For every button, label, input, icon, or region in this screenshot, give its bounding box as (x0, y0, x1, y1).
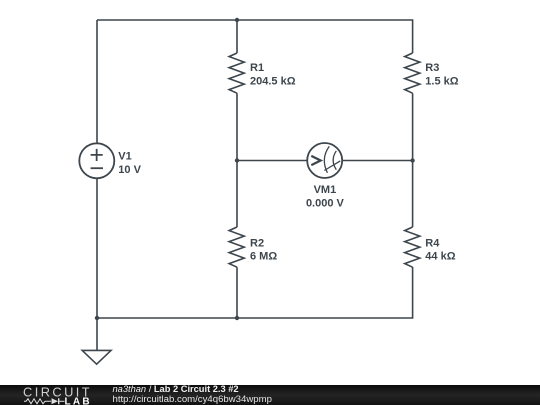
svg-text:R1: R1 (250, 62, 264, 74)
svg-text:V1: V1 (118, 151, 131, 163)
voltmeter VM1 needle (324, 161, 340, 171)
footer title line (113, 384, 239, 394)
voltmeter VM1 chevron (311, 156, 320, 165)
footer bar (0, 385, 540, 405)
resistor R1 zigzag (229, 53, 244, 93)
resistor R2 zigzag (229, 227, 244, 267)
svg-text:LAB: LAB (65, 396, 92, 405)
voltage source V1 circle (79, 143, 114, 178)
wire: node B to R2 top (236, 161, 238, 228)
svg-text:6 MΩ: 6 MΩ (250, 251, 277, 263)
svg-text:44 kΩ: 44 kΩ (425, 251, 455, 263)
svg-text:204.5 kΩ: 204.5 kΩ (250, 75, 296, 87)
ground symbol (82, 350, 111, 364)
logo diode triangle (52, 398, 59, 404)
wire: left branch below V1 to bottom net (96, 178, 98, 318)
wire: node B to voltmeter left terminal (237, 160, 307, 162)
svg-text:10 V: 10 V (118, 164, 141, 176)
wire: R3 bottom through node C to R4 top (412, 93, 414, 227)
svg-text:VM1: VM1 (314, 184, 337, 196)
svg-text:R2: R2 (250, 237, 264, 249)
logo resistor squiggle and diode (24, 398, 65, 404)
wire: R1 bottom to node B (236, 93, 238, 160)
svg-text:0.000 V: 0.000 V (306, 198, 345, 210)
wire: left branch above V1 (96, 20, 98, 143)
wire: bottom net (97, 267, 413, 318)
wire: voltmeter right terminal to node C (342, 160, 412, 162)
junction: ground tap (97,318) (95, 316, 99, 320)
wire: middle branch node A to R1 (236, 20, 238, 53)
voltmeter VM1 scale arc 1 (324, 146, 329, 173)
voltmeter VM1 scale arc 2 (333, 151, 336, 170)
V1 minus sign (91, 167, 103, 169)
V1 plus sign (91, 149, 103, 161)
wire: top net, V1 top to node A (97, 19, 237, 21)
junction node C (412.6,160.5) (410, 158, 414, 162)
wire: R2 bottom to bottom net (236, 267, 238, 318)
wire: top net, node A to R3 top corner (237, 20, 413, 53)
junction node A (237,20) (235, 18, 239, 22)
footer url line (113, 394, 272, 405)
junction: R2 bottom net (237,318) (235, 316, 239, 320)
wire: ground lead (96, 318, 98, 350)
voltmeter VM1 circle (307, 143, 342, 178)
resistor R4 zigzag (405, 227, 420, 267)
svg-text:R4: R4 (425, 237, 440, 249)
CircuitLab logo (0, 385, 110, 405)
svg-text:1.5 kΩ: 1.5 kΩ (425, 75, 458, 87)
junction node B (237,160.5) (235, 158, 239, 162)
resistor R3 zigzag (405, 53, 420, 93)
svg-text:R3: R3 (425, 62, 439, 74)
